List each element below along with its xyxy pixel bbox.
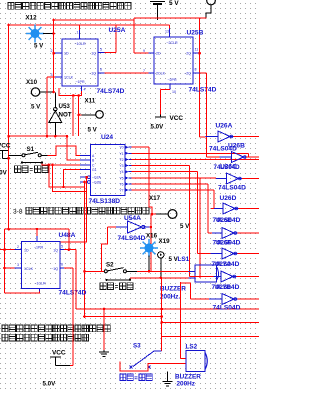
wire x68 riser [68,229,70,250]
pin U24 Y5 [125,176,128,180]
wire ground riser [103,309,105,350]
flip-flop U25A 74LS74D [62,39,98,86]
svg-text:5.0V: 5.0V [43,381,57,388]
svg-text:~1PR: ~1PR [75,80,84,84]
svg-text:1Q: 1Q [53,249,58,253]
svg-text:Y2: Y2 [119,158,123,162]
svg-text:U25A: U25A [109,27,126,34]
svg-text:X12: X12 [26,15,38,22]
pin U54A out [145,226,151,228]
wire U26E out [238,232,260,234]
wire Y6 [132,183,209,185]
wire to CLR [5,292,40,294]
wire U54A in [107,226,116,228]
pin LS1 2 [189,277,196,279]
wire 1Q right [105,52,116,54]
svg-text:U26A: U26A [216,123,233,130]
wire to U24 G1 [64,170,81,187]
wire G2B net down x84 [84,182,86,317]
wire NOT out net [9,135,67,137]
wire U27B out [238,298,260,300]
svg-text:74LS74D: 74LS74D [97,88,125,95]
svg-text:X11: X11 [85,98,96,105]
pin U24 Y1 [125,152,128,156]
svg-text:9: 9 [143,49,145,53]
svg-text:~1CLR: ~1CLR [74,42,86,46]
wire left bus [8,25,10,230]
svg-text:5: 5 [61,245,63,249]
svg-text:~2PR: ~2PR [167,78,176,82]
svg-text:Y0: Y0 [119,146,123,150]
pin U24 ~G2B [80,181,88,183]
label S3 key Chinese [120,374,133,380]
connector X16 [158,252,164,258]
svg-text:5: 5 [100,48,102,52]
svg-text:3-8: 3-8 [13,209,23,216]
inverter U26D 74LS04D [211,208,223,210]
wire X10 lead [40,91,54,93]
svg-text:6: 6 [61,263,63,267]
wire Y3 [132,165,190,167]
pin U24 C [80,164,91,166]
svg-text:U24: U24 [101,134,113,141]
wire VCC left lead [3,157,9,159]
svg-text:LS2: LS2 [186,344,198,351]
wire U25B top stub [168,25,170,29]
label S1 key Chinese [15,166,29,173]
wire U54A in from S2 [101,227,107,271]
wire S1 to U24 A [47,146,80,155]
decoder U24 74LS138D [91,144,126,195]
svg-text:Y4: Y4 [119,170,123,174]
annotation line3 Chinese [2,325,110,332]
wire H316 [85,316,162,318]
svg-text:~2CLR: ~2CLR [166,41,178,45]
wire x73 to VCC [72,268,74,366]
svg-text:Y7: Y7 [119,189,123,193]
wire H336 [162,336,259,338]
wire Y4 to U26F [197,253,210,255]
svg-text:BUZZER: BUZZER [160,286,186,293]
wire to LS1 pin1 [137,270,189,272]
wire Y5 down to LS1 [199,178,201,278]
wire U25A 1Q up [115,25,117,53]
wire x54 branch [53,20,55,93]
svg-text:Y1: Y1 [119,152,123,156]
pin U54A in [116,226,128,228]
svg-text:10: 10 [172,90,176,94]
svg-text:~1Q: ~1Q [89,72,96,76]
wire H229 [5,228,69,230]
svg-text:6: 6 [100,68,102,72]
wire U26B in [207,156,220,158]
svg-text:U26F: U26F [216,240,231,247]
svg-text:1CLK: 1CLK [24,267,34,271]
connector X11 [96,111,104,119]
pin U48A ~1Q [60,267,64,269]
svg-text:=: = [30,168,34,174]
pin U25B 2CLK [149,72,155,74]
svg-text:200Hz: 200Hz [177,381,195,388]
wire X10 to U53 [54,93,56,108]
wire U25A clk feed [47,76,55,78]
svg-text:3: 3 [17,263,19,267]
svg-text:=: = [115,285,119,291]
pin U25B 2D [149,52,155,54]
wire U26C out [242,178,259,180]
wire 1Q out [64,249,76,251]
svg-text:5 V: 5 V [34,43,44,50]
pin U24 Y0 [125,145,128,149]
svg-text:X17: X17 [149,195,161,202]
inverter U27A 74LS04D [190,276,214,278]
pin U48A 1CLK [15,267,22,269]
flip-flop U25B 74LS74D [154,37,193,84]
svg-text:NOT: NOT [59,112,72,119]
pin U24 Y3 [125,164,128,168]
pin U24 ~G2A [80,176,88,178]
ground G2 [163,380,173,386]
svg-text:VCC: VCC [0,143,11,150]
svg-text:LS1: LS1 [178,256,190,263]
wire X12 lead [43,33,54,35]
svg-text:U25B: U25B [187,30,204,37]
svg-text:U53: U53 [59,103,71,110]
switch S2 lever [108,268,124,271]
wire top A [54,19,134,21]
pin LS1 1 [189,270,196,272]
pin U24 B [80,159,91,161]
svg-text:1Q: 1Q [91,52,96,56]
wire VCC drop [159,90,161,115]
wire U26D out [239,208,260,210]
wire ~1Q out [64,267,73,269]
wire top A2 [134,17,207,19]
svg-text:5 V: 5 V [88,127,98,134]
pin U48A ~1CLR [39,289,41,292]
switch S1 lever [25,152,38,154]
wire down right to U26A [199,18,201,137]
pin U24 A [80,154,91,156]
svg-text:U54A: U54A [124,215,141,222]
svg-text:2: 2 [51,49,53,53]
wire U26B out [246,156,259,158]
svg-text:~1CLR: ~1CLR [34,282,46,286]
wire U53 out [54,123,56,137]
svg-text:Y3: Y3 [119,164,123,168]
svg-text:~1PR: ~1PR [34,246,43,250]
connector X13 [207,0,216,5]
switch S3 lever [133,351,154,367]
svg-text:U26E: U26E [216,217,231,224]
wire X19 lead [148,256,150,272]
wire battery lead [157,4,159,20]
inverter U26B 74LS04D [220,156,232,158]
svg-text:74LS04D: 74LS04D [218,185,246,192]
svg-text:X10: X10 [26,79,38,86]
wire PR riser [36,229,38,236]
svg-text:5.0V: 5.0V [151,124,165,131]
svg-text:74LS04D: 74LS04D [118,235,146,242]
svg-text:74LS138D: 74LS138D [89,198,121,205]
battery V1 5V (cut off at top) [150,1,165,3]
wire Y4 down [196,172,198,254]
wire U26F out [238,253,260,255]
wire stub U25A top [79,25,81,30]
svg-text:74LS74D: 74LS74D [189,87,217,94]
power VCC mid [155,116,166,118]
wire Y0 [132,146,150,148]
svg-text:8: 8 [195,68,197,72]
svg-text:1D: 1D [24,249,29,253]
svg-text:2CLK: 2CLK [156,72,166,76]
wire corner to G2B [49,165,85,187]
pin U48A 1Q [60,249,64,251]
svg-text:5 V: 5 V [169,0,179,7]
svg-text:2D: 2D [156,52,161,56]
wire 2PR to VCC [160,89,170,91]
wire Y0 to X17 [149,147,152,214]
connector X17 [168,210,177,219]
pin U24 G1 [80,169,91,171]
wire top B [9,24,170,26]
lamp X19 [140,239,158,257]
svg-text:5 V: 5 V [31,104,41,111]
svg-text:BUZZER: BUZZER [175,374,201,381]
inverter U26F 74LS04D [210,253,222,255]
wire X13 lead [206,5,211,18]
svg-text:S3: S3 [133,343,141,350]
wire ~2Q down [206,73,208,157]
wire ~1Q to U25B [105,72,149,74]
inverter U26E 74LS04D [208,232,212,234]
wire U54A out net [150,214,152,271]
wire corner to G2A [53,165,87,192]
svg-text:~1Q: ~1Q [51,267,58,271]
svg-text:S1: S1 [27,146,35,153]
svg-text:3: 3 [51,73,53,77]
wire vert x79 [78,96,80,137]
wire to 1CLK [5,267,15,269]
switch S1 throw2 [22,162,42,164]
pin U24 Y4 [125,170,128,174]
lamp X12 [26,25,44,43]
svg-text:X16: X16 [146,233,158,240]
svg-text:Y5: Y5 [119,176,123,180]
annotation line4 Chinese [2,334,88,341]
pin U25B ~2CLR [168,29,170,38]
wire V162 down to S3 [161,278,163,351]
power VCC left [0,149,8,151]
svg-text:1: 1 [77,31,79,35]
pin U25A ~1CLR [79,30,81,39]
svg-text:74LS04D: 74LS04D [213,305,241,312]
pin U48A ~1PR [36,236,38,242]
pin U25A 1D [55,52,62,54]
svg-text:X19: X19 [159,238,171,245]
switch S1 [9,154,22,156]
annotation line1 Chinese: adder intro [8,2,131,9]
wire left edge to 1D [0,249,15,251]
svg-text:VCC: VCC [170,115,184,122]
wire to S2 [85,270,105,272]
wire Y2 to edge [132,159,260,161]
wire U27A out [237,276,260,278]
wire X11 lead [81,114,96,116]
svg-text:2Q: 2Q [186,52,191,56]
wire Y4 [132,171,198,173]
svg-text:VCC: VCC [52,350,66,357]
wire H322 [162,321,259,323]
wire G2A net down x86 [60,177,87,242]
svg-text:1CLK: 1CLK [64,76,74,80]
wire clk net down [46,77,48,136]
svg-text:13: 13 [165,30,169,34]
wire 1Q down x75 [75,250,77,309]
wire S3 to LS2 [120,362,186,372]
wire LS1 net to LS2 pin1 [180,358,186,360]
switch S2 throw2 [107,279,131,281]
pin U24 Y6 [125,182,128,186]
svg-text:U26B: U26B [228,143,245,150]
wire U26A out [234,136,260,138]
wire S1 throw2 to U24 C [42,163,80,165]
pin U25B ~2PR [169,84,171,90]
inverter U26A 74LS04D [206,136,219,138]
svg-text:=: = [134,376,138,382]
svg-text:Y6: Y6 [119,183,123,187]
wire Y7 down [213,190,215,208]
svg-text:U26D: U26D [220,195,237,202]
wire to 2D [134,52,149,54]
svg-text:U48A: U48A [59,232,76,239]
svg-text:74LS04D: 74LS04D [214,164,241,171]
pin U25A 1CLK [55,76,62,78]
wire H309 long [76,308,259,310]
wire riser x134 [133,18,135,25]
svg-text:2: 2 [17,245,19,249]
pin U48A 1D [15,249,22,251]
wire to LS1 pin2 [130,277,189,279]
wire ~1PR net [59,88,81,96]
wire bus to 1D [54,52,55,54]
svg-text:~G2A: ~G2A [92,176,102,180]
svg-text:11: 11 [195,48,199,52]
wire Y3 down [189,166,191,277]
pin U25A 1Q [98,52,105,54]
wire X17 lead [156,213,168,215]
pin U25B ~2Q [193,72,200,74]
wire VCC lead [56,365,70,367]
wire Y5 into U26C [132,177,217,179]
power VCC bottom [50,356,61,358]
wire U27B in [180,283,190,299]
svg-text:G1: G1 [92,168,97,172]
wire to U24 B [67,136,80,160]
wire LS1 to LS2 [179,282,181,359]
svg-text:7: 7 [143,69,145,73]
wire Y1 long [132,152,249,154]
label S2 key Chinese [100,283,114,290]
pin U25B 2Q [193,52,200,54]
wire Y1 drop [248,153,250,157]
pin U24 Y2 [125,158,128,162]
svg-text:5 V: 5 V [180,223,190,230]
svg-text:U27A: U27A [215,261,231,268]
wire Y7 [132,189,215,191]
inverter U26C 74LS04D [216,178,227,180]
svg-text:5.0V: 5.0V [0,170,8,177]
ground G1 [99,350,109,356]
svg-text:~2Q: ~2Q [184,72,191,76]
svg-text:~G2B: ~G2B [92,181,102,185]
pin U25A ~1PR [80,86,82,91]
svg-text:200Hz.: 200Hz. [160,294,180,301]
connector X10 [31,88,39,96]
svg-text:S2: S2 [106,262,114,269]
wire Y6 down [207,184,209,233]
pin U24 Y7 [125,188,128,192]
pin U25A ~1Q [98,72,105,74]
wire left low bus [4,229,6,293]
wire X16 lead [160,258,162,278]
svg-text:U27B: U27B [215,284,231,291]
wire ~2Q right [200,72,207,74]
inverter U27B 74LS04D [191,298,209,300]
wire vert x73 [72,96,74,137]
wire to U25B 2D [133,25,135,53]
flip-flop U48A 74LS74D [22,242,61,289]
svg-text:1D: 1D [64,52,69,56]
svg-text:4: 4 [84,88,86,92]
